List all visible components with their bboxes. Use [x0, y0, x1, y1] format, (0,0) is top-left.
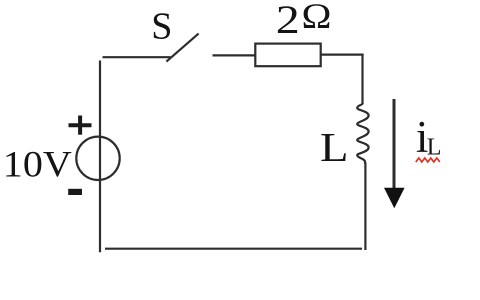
voltage source V1 (10V): [76, 137, 119, 180]
unit label ohm: [302, 0, 332, 36]
inductor L coil: [357, 103, 368, 163]
value label 2: [276, 0, 300, 42]
svg-text:L: L: [427, 135, 442, 161]
wire left vertical: [99, 61, 101, 253]
wire bottom horizontal: [105, 248, 362, 250]
svg-text:2: 2: [276, 0, 300, 42]
label L: [320, 124, 349, 170]
wire right vertical lower: [364, 163, 366, 251]
minus sign: [68, 189, 82, 195]
wire right vertical upper: [361, 54, 363, 105]
current arrow iL: [384, 99, 405, 208]
wire top-left horizontal: [103, 56, 171, 58]
wire resistor to top-right corner: [321, 53, 364, 55]
label L subscript: [427, 135, 442, 161]
svg-text:10V: 10V: [3, 145, 72, 186]
switch S blade: [166, 34, 198, 62]
wire switch to resistor: [213, 54, 257, 56]
svg-text:L: L: [320, 124, 349, 170]
spellcheck squiggle under iL: [416, 158, 440, 162]
label i: [416, 112, 429, 162]
resistor R1 body: [255, 44, 320, 67]
plus sign: [69, 116, 92, 135]
label 10V: [3, 145, 72, 186]
svg-text:Ω: Ω: [302, 0, 332, 36]
svg-text:S: S: [151, 6, 172, 48]
label S: [151, 6, 172, 48]
